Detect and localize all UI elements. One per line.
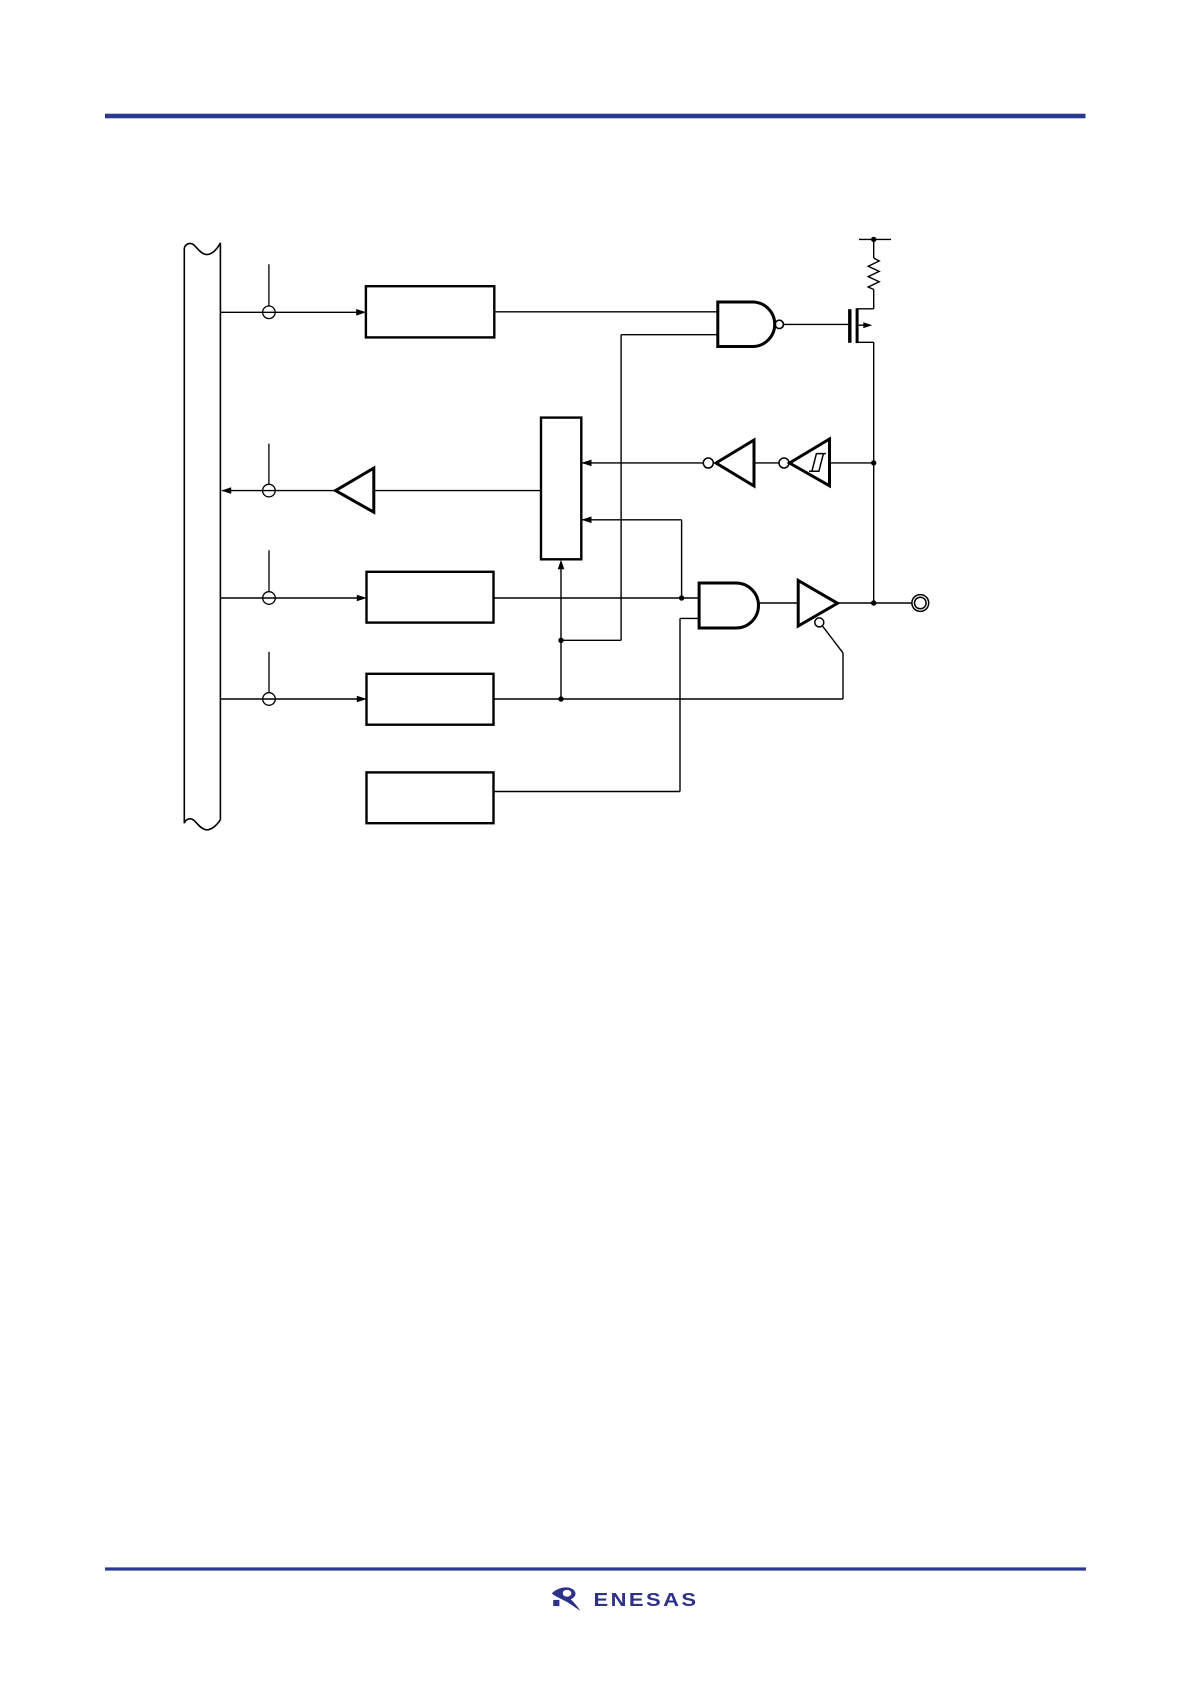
arrowhead into B2 bottom bbox=[558, 560, 565, 570]
stem above read stub circle bbox=[268, 444, 270, 485]
power rail bbox=[859, 238, 891, 240]
arrowhead into bus bbox=[221, 487, 231, 494]
MOSFET drain arm bbox=[857, 341, 874, 343]
AND gate U2 bbox=[699, 583, 758, 628]
inverter output bubble bbox=[703, 458, 713, 468]
wire: rail to resistor bbox=[873, 239, 875, 258]
svg-text:ENESAS: ENESAS bbox=[594, 1590, 699, 1610]
internal data bus right edge bbox=[219, 243, 221, 820]
register box B3 bbox=[367, 572, 494, 623]
register box B1 bbox=[366, 286, 494, 337]
wire: B2 left output to read buffer bbox=[374, 490, 541, 492]
inverter triangle bbox=[716, 440, 754, 486]
node circle on B4 stub bbox=[263, 693, 276, 706]
arrowhead into B1 bbox=[356, 309, 366, 316]
wire: NAND lower input horizontal bbox=[621, 334, 718, 336]
node circle on B3 stub bbox=[263, 592, 276, 605]
arrowhead into B3 bbox=[357, 595, 367, 602]
top header rule bbox=[105, 114, 1086, 119]
wire: vertical from NAND lower input down bbox=[620, 335, 622, 641]
schmitt output bubble bbox=[779, 458, 789, 468]
wire: inverter to B2 input bbox=[581, 462, 703, 464]
wire: B3 output to AND top input bbox=[494, 597, 700, 599]
wire: bus stub to register box B1 bbox=[220, 311, 357, 313]
arrowhead into B2 lower right bbox=[582, 517, 592, 524]
register box B4 bbox=[367, 674, 494, 725]
NAND output bubble bbox=[775, 320, 783, 328]
junction dot on box3 output bbox=[679, 595, 684, 600]
MOSFET Q1 channel bar bbox=[856, 308, 859, 343]
node circle on read stub bbox=[263, 484, 276, 497]
wire: NAND output to MOSFET gate bbox=[784, 323, 849, 325]
wire: vertical into B2 bottom bbox=[560, 563, 562, 699]
MOSFET middle arm with arrow bbox=[859, 324, 865, 326]
wire: jog at y 640 bbox=[561, 639, 621, 641]
wire: buffer output to pad node bbox=[838, 602, 912, 604]
I/O pad inner circle bbox=[915, 597, 927, 609]
wire: MOSFET drain down to output node bbox=[873, 342, 875, 603]
Renesas logo bbox=[552, 1587, 699, 1610]
wire: B1 output to NAND top input bbox=[494, 311, 718, 313]
pull-up resistor bbox=[868, 258, 879, 290]
bottom footer rule bbox=[105, 1567, 1086, 1570]
register box B2 (tall) bbox=[541, 418, 581, 560]
internal data bus top torn edge bbox=[184, 243, 220, 255]
register box B5 bbox=[367, 772, 494, 823]
schmitt trigger buffer bbox=[790, 439, 830, 486]
wire: vertical down to box3 line bbox=[681, 520, 683, 598]
wire: AND output to output buffer bbox=[759, 602, 799, 604]
stem above B3 stub circle bbox=[268, 550, 270, 591]
wire: read buffer to bus bbox=[222, 490, 336, 492]
wire: vertical up to AND lower input bbox=[679, 618, 681, 791]
wire: diagonal to enable bubble bbox=[823, 626, 843, 653]
wire: B4 output line bbox=[494, 698, 844, 700]
NAND gate U1 bbox=[718, 302, 775, 347]
output buffer enable bubble bbox=[815, 618, 824, 627]
junction dot at jog bbox=[558, 638, 563, 643]
hysteresis glyph bbox=[809, 454, 826, 472]
junction dot on B4 output bbox=[558, 696, 563, 701]
output buffer triangle bbox=[798, 581, 837, 627]
junction dot at output node bbox=[871, 600, 876, 605]
wire: bus stub to register box B3 bbox=[220, 597, 357, 599]
junction dot on power rail bbox=[871, 237, 876, 242]
wire: tap to schmitt input bbox=[830, 462, 874, 464]
node circle on B1 stub bbox=[263, 306, 276, 319]
wire: vertical up toward enable bubble bbox=[842, 653, 844, 699]
R bowl and tail bbox=[552, 1587, 581, 1610]
wire: resistor to MOSFET source bbox=[873, 290, 875, 309]
arrowhead into B2 top right bbox=[582, 460, 592, 467]
stem above B4 stub circle bbox=[268, 652, 270, 693]
internal data bus left edge bbox=[183, 248, 185, 823]
MOSFET source arm bbox=[857, 308, 874, 310]
junction dot at schmitt tap bbox=[871, 460, 876, 465]
wire: bus stub to register box B4 bbox=[220, 698, 357, 700]
internal data bus bottom torn edge bbox=[184, 819, 220, 830]
R square dot bbox=[553, 1600, 559, 1606]
read buffer triangle bbox=[336, 468, 374, 512]
MOSFET Q1 gate bar bbox=[848, 309, 851, 343]
wire: schmitt bubble to inverter bbox=[754, 462, 779, 464]
stem above B1 stub circle bbox=[268, 264, 270, 306]
I/O pad outer circle bbox=[912, 595, 929, 612]
wire: B5 output bbox=[494, 791, 681, 793]
wire: AND lower input bbox=[680, 617, 699, 619]
arrowhead into B4 bbox=[357, 696, 367, 703]
wire: B2 lower-right input bbox=[581, 519, 681, 521]
